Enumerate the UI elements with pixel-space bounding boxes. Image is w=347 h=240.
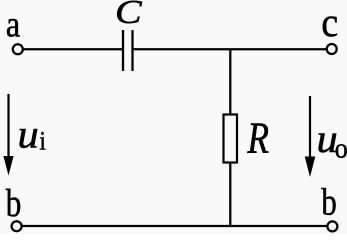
svg-text:R: R bbox=[247, 113, 269, 163]
capacitor C right plate bbox=[131, 30, 133, 71]
svg-text:b: b bbox=[321, 180, 336, 223]
terminal b right (open circle) bbox=[327, 221, 337, 231]
wire: node on top wire down to resistor R top bbox=[229, 49, 231, 114]
svg-text:b: b bbox=[6, 182, 22, 225]
wire bottom rail bbox=[23, 225, 327, 227]
terminal c (open circle) bbox=[327, 44, 337, 54]
wire: resistor R bottom down to bottom rail bbox=[229, 163, 231, 227]
arrow u_o (output voltage, pointing down) bbox=[305, 96, 316, 177]
arrow u_i (input voltage, pointing down) bbox=[3, 94, 13, 176]
svg-text:a: a bbox=[6, 3, 21, 45]
svg-text:i: i bbox=[39, 128, 46, 156]
svg-text:c: c bbox=[321, 0, 338, 46]
terminal a (open circle) bbox=[13, 44, 23, 54]
terminal b left (open circle) bbox=[12, 221, 22, 231]
resistor R (rectangle body) bbox=[224, 115, 238, 163]
wire top-right: capacitor right plate to terminal c, passing node bbox=[134, 48, 327, 50]
wire top-left: terminal a to capacitor left plate bbox=[24, 48, 122, 50]
svg-text:u: u bbox=[18, 111, 39, 156]
svg-text:C: C bbox=[115, 0, 142, 30]
svg-text:o: o bbox=[335, 131, 347, 164]
capacitor C left plate bbox=[122, 30, 124, 71]
